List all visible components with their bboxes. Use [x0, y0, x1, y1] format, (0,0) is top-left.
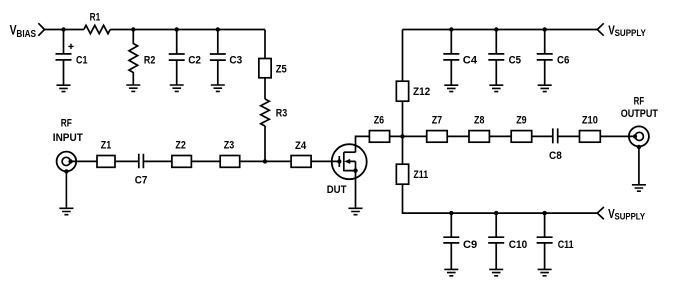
ground: [444, 85, 458, 91]
impedance Z12: [396, 81, 430, 101]
ground: [538, 85, 552, 91]
capacitor C1: [56, 30, 88, 86]
impedance Z9: [511, 114, 532, 142]
capacitor C2: [169, 30, 201, 86]
svg-text:Z7: Z7: [432, 114, 442, 126]
svg-text:BIAS: BIAS: [16, 29, 36, 40]
junction: [543, 27, 547, 31]
svg-text:Z12: Z12: [413, 86, 430, 98]
ground: [126, 85, 140, 91]
terminal VSUPPLY bottom chevron: [597, 207, 604, 219]
capacitor C7: [135, 154, 148, 187]
wire: [638, 147, 640, 185]
impedance Z2: [172, 139, 192, 167]
svg-text:RF: RF: [61, 118, 72, 130]
terminal VBIAS chevron: [38, 23, 44, 36]
wire: [311, 160, 339, 162]
RF INPUT label: [53, 118, 83, 144]
ground: [538, 269, 552, 275]
junction: [61, 27, 65, 31]
svg-text:Z5: Z5: [276, 63, 287, 75]
junction: [494, 27, 498, 31]
wire: [240, 160, 291, 162]
resistor R1: [84, 11, 110, 33]
svg-text:Z3: Z3: [224, 139, 234, 151]
svg-text:OUTPUT: OUTPUT: [621, 108, 658, 120]
impedance Z6: [369, 114, 389, 142]
svg-text:Z11: Z11: [413, 169, 428, 181]
svg-text:R2: R2: [144, 54, 155, 66]
wire: [447, 135, 469, 137]
junction: [263, 159, 267, 163]
impedance Z10: [580, 114, 601, 142]
wire: [264, 126, 266, 161]
net VBIAS label: [10, 23, 37, 40]
resistor R3: [261, 99, 287, 126]
wire: [115, 160, 139, 162]
wire: [600, 135, 635, 137]
wire: [110, 29, 265, 31]
svg-text:Z9: Z9: [516, 114, 526, 126]
capacitor C5: [488, 30, 521, 86]
net VSUPPLY top label: [608, 22, 646, 38]
impedance Z8: [469, 114, 489, 142]
impedance Z5: [259, 59, 287, 78]
ground: [632, 185, 646, 191]
capacitor C4: [443, 30, 478, 86]
impedance Z3: [220, 139, 240, 167]
wire: [264, 30, 266, 59]
wire: [45, 29, 84, 31]
svg-text:Z6: Z6: [374, 114, 384, 126]
resistor R2: [129, 30, 155, 86]
svg-text:C5: C5: [509, 55, 521, 67]
wire: [489, 135, 511, 137]
svg-text:C6: C6: [557, 55, 569, 67]
capacitor C11: [537, 213, 574, 269]
svg-text:C1: C1: [76, 55, 87, 67]
terminal VSUPPLY top chevron: [597, 23, 603, 35]
junction: [216, 27, 220, 31]
impedance Z11: [396, 164, 428, 184]
connector RF input: [57, 152, 77, 174]
svg-text:Z4: Z4: [295, 140, 307, 152]
wire top supply rail: [403, 29, 598, 31]
capacitor C8: [549, 128, 562, 162]
wire source: [355, 171, 357, 209]
ground: [489, 269, 503, 275]
junction: [542, 211, 546, 215]
svg-text:C7: C7: [135, 174, 148, 186]
capacitor C9: [443, 213, 477, 269]
ground: [59, 171, 73, 214]
junction: [175, 27, 179, 31]
junction: [449, 211, 453, 215]
wire: [532, 135, 553, 137]
junction: [449, 27, 453, 31]
junction: [400, 134, 404, 138]
ground: [489, 85, 503, 91]
ground: [170, 85, 184, 91]
wire: [390, 135, 427, 137]
svg-text:RF: RF: [634, 95, 645, 107]
wire: [402, 136, 404, 164]
transistor DUT (MOSFET): [327, 144, 367, 196]
wire: [143, 160, 172, 162]
svg-text:Z2: Z2: [175, 139, 185, 151]
wire: [71, 160, 97, 162]
ground: [57, 85, 71, 91]
wire: [403, 184, 598, 213]
svg-text:INPUT: INPUT: [53, 132, 83, 144]
capacitor C6: [537, 30, 570, 86]
capacitor C10: [488, 213, 527, 269]
svg-text:Z10: Z10: [582, 114, 598, 126]
svg-text:C9: C9: [463, 239, 477, 251]
svg-text:SUPPLY: SUPPLY: [615, 212, 646, 223]
svg-text:Z8: Z8: [474, 114, 484, 126]
ground: [444, 269, 458, 275]
svg-text:R3: R3: [276, 108, 287, 120]
wire: [402, 101, 404, 136]
wire: [191, 160, 220, 162]
svg-text:C10: C10: [509, 239, 527, 251]
svg-text:R1: R1: [90, 11, 101, 23]
wire: [264, 78, 266, 99]
svg-text:C4: C4: [463, 55, 478, 67]
connector RF output: [629, 126, 649, 149]
svg-text:C3: C3: [229, 55, 242, 67]
svg-text:C2: C2: [188, 55, 201, 67]
svg-text:C8: C8: [549, 150, 562, 162]
capacitor C3: [210, 30, 242, 86]
impedance Z7: [427, 114, 448, 142]
ground: [211, 85, 225, 91]
wire supply column up: [402, 30, 404, 82]
ground: [349, 208, 363, 214]
wire drain: [356, 136, 370, 152]
impedance Z4: [291, 140, 311, 168]
junction: [494, 211, 498, 215]
impedance Z1: [97, 139, 115, 167]
net VSUPPLY bottom label: [608, 206, 645, 223]
junction: [131, 27, 135, 31]
svg-text:C11: C11: [558, 239, 574, 251]
wire: [558, 135, 580, 137]
RF OUTPUT label: [621, 95, 658, 120]
svg-text:SUPPLY: SUPPLY: [615, 28, 647, 39]
svg-text:DUT: DUT: [327, 184, 347, 196]
svg-text:Z1: Z1: [101, 139, 111, 151]
